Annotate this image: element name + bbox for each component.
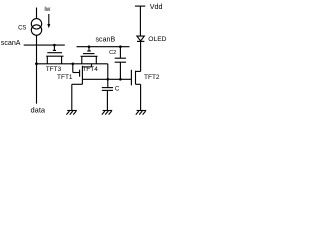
svg-text:data: data xyxy=(31,105,46,114)
transistor TFT4 xyxy=(81,47,98,64)
capacitor C xyxy=(102,88,113,111)
node junction scanB/TFT4 gate xyxy=(88,45,91,48)
wire data line top segment xyxy=(36,8,38,19)
svg-text:TFT1: TFT1 xyxy=(57,74,73,81)
capacitor C2 xyxy=(115,47,126,80)
wire TFT1 source to ground xyxy=(71,84,73,110)
wire TFT2 source down xyxy=(140,84,142,110)
svg-text:scanA: scanA xyxy=(1,39,21,47)
svg-text:Iw: Iw xyxy=(44,6,51,13)
wire node N vertical to cap C xyxy=(107,64,109,88)
transistor TFT3 xyxy=(46,45,63,64)
power Vdd xyxy=(135,5,145,7)
svg-text:Vdd: Vdd xyxy=(150,2,163,11)
svg-text:scanB: scanB xyxy=(96,36,116,44)
current source CS xyxy=(31,19,41,36)
wire data line vertical xyxy=(36,35,38,104)
transistor TFT1 xyxy=(72,64,92,85)
node junction gate wire/C2 xyxy=(119,78,122,81)
wire TFT2 gate line xyxy=(82,78,131,80)
svg-text:OLED: OLED xyxy=(148,36,166,43)
ground TFT2 source xyxy=(136,111,146,115)
node junction scanA/TFT3 gate xyxy=(53,44,56,47)
wire scanB line xyxy=(77,46,130,48)
svg-text:C2: C2 xyxy=(109,50,116,56)
transistor TFT2 xyxy=(131,70,140,86)
wire scanA line xyxy=(24,44,65,46)
diode OLED xyxy=(137,36,145,41)
node junction TFT1 gate tap xyxy=(72,63,75,66)
ground TFT1 source xyxy=(66,111,76,115)
svg-text:C: C xyxy=(115,86,120,93)
ground capacitor C xyxy=(102,111,112,115)
node junction scanB/C2 xyxy=(119,45,122,48)
wire TFT2 drain to OLED xyxy=(140,41,142,71)
node junction data/node wire xyxy=(35,62,38,65)
svg-text:TFT2: TFT2 xyxy=(144,74,160,81)
current arrow Iw xyxy=(47,14,50,28)
svg-text:CS: CS xyxy=(18,25,26,31)
node junction gate wire/node vertical xyxy=(107,78,110,81)
wire Vdd to OLED xyxy=(139,6,141,36)
svg-text:TFT3: TFT3 xyxy=(46,66,62,73)
wire node N horizontal xyxy=(37,63,108,65)
